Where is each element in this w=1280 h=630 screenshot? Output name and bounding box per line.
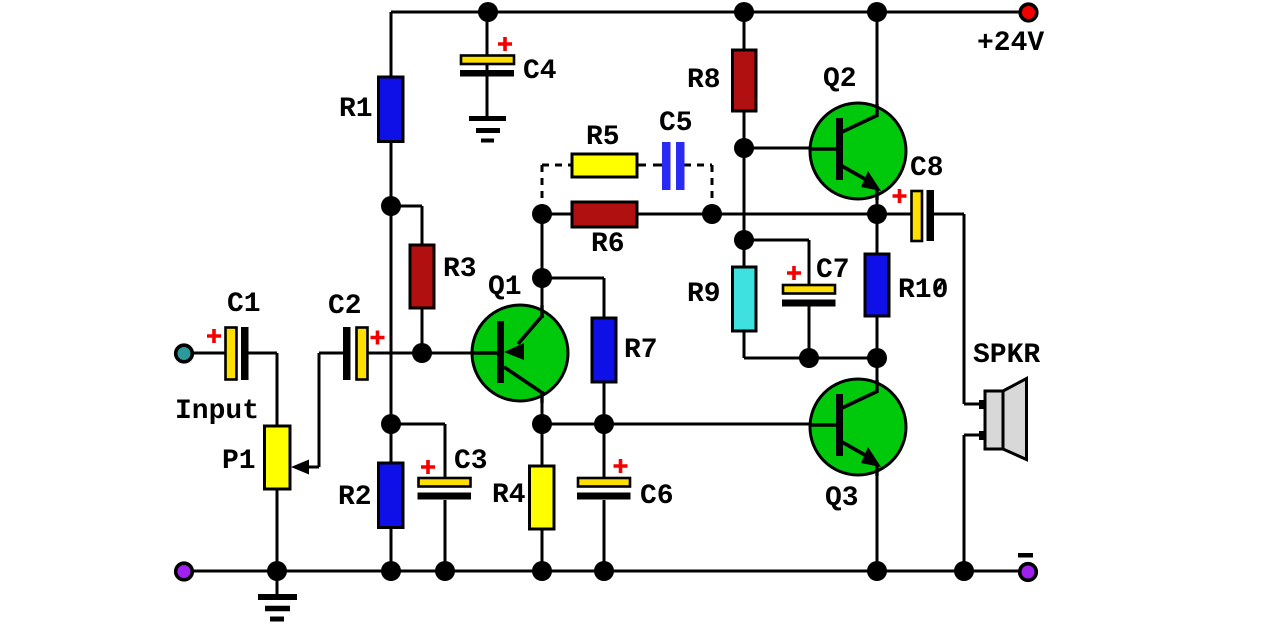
speaker SPKR <box>985 379 1027 460</box>
junction Q1 collector node <box>532 414 552 434</box>
label P1 <box>222 446 256 477</box>
label C4 <box>523 56 557 87</box>
resistor R6 <box>572 202 637 227</box>
terminal +24V <box>1020 4 1037 21</box>
label C1 <box>227 289 261 320</box>
capacitor C7 <box>782 285 836 307</box>
wire C7 branch <box>744 240 809 358</box>
svg-text:R2: R2 <box>338 482 372 513</box>
resistor R9 <box>733 267 757 331</box>
junction C5 dashed link on node A <box>702 204 722 224</box>
wire input to C1 <box>192 352 225 355</box>
label C5 <box>659 108 693 139</box>
wire speaker top lead <box>964 400 987 409</box>
junction C7 bottom on node B <box>799 348 819 368</box>
polarity + for C2 <box>371 331 385 345</box>
label Q1 <box>488 272 522 303</box>
junction R7/C6 on collector line <box>594 414 614 434</box>
junction Q3 emitter ground <box>867 561 887 581</box>
wire C1 to P1 top <box>248 353 277 427</box>
svg-text:+24V: +24V <box>977 28 1044 59</box>
label R9 <box>687 279 721 310</box>
wire dashed link R5 to C5 <box>637 164 662 167</box>
junction R8 on +24V rail <box>734 2 754 22</box>
junction C7 branch on R8 branch <box>734 230 754 250</box>
polarity + for C8 <box>893 189 907 203</box>
ground (C4) <box>469 119 506 141</box>
capacitor C4 <box>460 56 514 77</box>
resistor R10 <box>865 254 889 316</box>
capacitor C2 <box>343 327 368 380</box>
label Input <box>175 396 259 427</box>
junction Q1 emitter / R7 top <box>532 268 552 288</box>
resistor R2 <box>379 463 404 528</box>
svg-text:P1: P1 <box>222 446 256 477</box>
label R4 <box>492 480 526 511</box>
resistor R7 <box>592 318 616 382</box>
wire P1 wiper to C2 <box>298 353 343 467</box>
junction speaker ground <box>954 561 974 581</box>
wire Q3 collector <box>876 358 879 394</box>
junction R1/R3 divider node <box>381 196 401 216</box>
label R3 <box>443 254 477 285</box>
svg-text:C3: C3 <box>454 446 488 477</box>
resistor R3 <box>410 245 434 308</box>
transistor Q3 <box>810 379 906 476</box>
svg-text:C7: C7 <box>816 255 850 286</box>
polarity + for C1 <box>207 329 221 343</box>
svg-text:C6: C6 <box>640 481 674 512</box>
wire C6 bottom to ground rail <box>603 500 606 571</box>
svg-text:R4: R4 <box>492 480 526 511</box>
wire Q1 emitter up to node A <box>541 214 544 312</box>
wire dashed link left of R5 <box>542 165 572 211</box>
svg-text:R1: R1 <box>339 94 373 125</box>
wire Q1 collector down <box>541 392 544 424</box>
label Q3 <box>825 483 859 514</box>
junction R2 top / C3 branch <box>381 414 401 434</box>
junction R4 ground <box>532 561 552 581</box>
label R5 <box>586 122 620 153</box>
label R10 <box>898 275 948 306</box>
svg-text:R7: R7 <box>624 335 658 366</box>
wire Q1 collector to Q3 base <box>542 423 812 426</box>
svg-text:R9: R9 <box>687 279 721 310</box>
ground (bottom rail) <box>258 571 297 619</box>
wire R7 branch from Q1 emitter <box>542 278 604 318</box>
junction R3 bottom on Q1 base <box>412 343 432 363</box>
label R1 <box>339 94 373 125</box>
wire C8 to speaker corner <box>933 214 964 404</box>
svg-text:R5: R5 <box>586 122 620 153</box>
wire R3 bottom to base node <box>421 308 424 353</box>
svg-text:R6: R6 <box>591 229 625 260</box>
capacitor C5 <box>662 142 685 190</box>
label C3 <box>454 446 488 477</box>
wire left divider vertical (R1-R2 chain) <box>390 12 393 571</box>
svg-text:Q2: Q2 <box>823 64 857 95</box>
wire R3 top to divider node <box>391 206 422 245</box>
label R7 <box>624 335 658 366</box>
svg-text:SPKR: SPKR <box>973 340 1040 371</box>
wire C2 to Q1 base <box>367 352 473 355</box>
svg-text:R3: R3 <box>443 254 477 285</box>
capacitor C8 <box>912 190 935 241</box>
svg-text:C2: C2 <box>328 291 362 322</box>
wire C3 bottom to ground rail <box>444 500 447 571</box>
label R6 <box>591 229 625 260</box>
junction Q2 collector on +24V rail <box>867 2 887 22</box>
label C8 <box>910 153 944 184</box>
transistor Q2 <box>810 103 906 200</box>
svg-text:Q1: Q1 <box>488 272 522 303</box>
polarity + for C7 <box>787 266 801 280</box>
wire top +24V rail <box>391 11 1024 14</box>
wire P1 bottom to ground rail <box>276 489 279 571</box>
label C6 <box>640 481 674 512</box>
junction C3 ground <box>435 561 455 581</box>
label Q2 <box>823 64 857 95</box>
junction C6 ground <box>594 561 614 581</box>
wire bottom ground rail <box>188 570 1024 573</box>
terminal negative right <box>1018 553 1036 580</box>
wire C4 branch from top rail <box>486 12 489 116</box>
resistor R8 <box>733 50 757 111</box>
capacitor C1 <box>226 327 249 380</box>
wire R10 bottom to node B <box>876 316 879 358</box>
wire Q2 base from R8 node <box>744 147 840 150</box>
wire R8/R9 branch vertical <box>743 12 746 358</box>
junction R2 ground <box>381 561 401 581</box>
terminal ground left <box>176 563 193 580</box>
wire Q2 collector from top rail <box>876 12 879 119</box>
resistor R4 <box>530 466 555 529</box>
wire R4 to ground rail <box>541 424 544 571</box>
wire node B horizontal (R9/C7/R10 bottom) <box>744 357 877 360</box>
label C2 <box>328 291 362 322</box>
wire speaker bottom lead <box>964 431 987 571</box>
transistor Q1 <box>472 305 568 403</box>
svg-text:C4: C4 <box>523 56 557 87</box>
capacitor C3 <box>418 478 472 500</box>
label +24V <box>977 28 1044 59</box>
svg-text:C1: C1 <box>227 289 261 320</box>
svg-text:Q3: Q3 <box>825 483 859 514</box>
wire Q3 emitter to ground rail <box>876 466 879 571</box>
polarity + for C6 <box>614 459 628 473</box>
label R8 <box>687 65 721 96</box>
capacitor C6 <box>577 478 631 500</box>
wire R7 bottom to collector line <box>603 382 606 424</box>
polarity + for C4 <box>498 37 512 51</box>
svg-text:Input: Input <box>175 396 259 427</box>
wire dashed link right of C5 <box>684 165 712 211</box>
junction R10 bottom / Q3 collector <box>867 348 887 368</box>
wire C6 top to collector line <box>603 424 606 478</box>
junction node A at R5/R6 left <box>532 204 552 224</box>
svg-text:R8: R8 <box>687 65 721 96</box>
label C7 <box>816 255 850 286</box>
junction P1 ground <box>267 561 287 581</box>
label R2 <box>338 482 372 513</box>
wire R2 top node to C3 <box>391 424 445 478</box>
label SPKR <box>973 340 1040 371</box>
resistor R5 <box>572 154 637 177</box>
svg-text:C5: C5 <box>659 108 693 139</box>
junction C4 on +24V rail <box>478 2 498 22</box>
junction Q2 emitter / C8 / R10 <box>867 204 887 224</box>
wire node A horizontal (R6 line) <box>541 213 911 216</box>
polarity + for C3 <box>421 460 435 474</box>
junction Q2 base on R8 branch <box>734 138 754 158</box>
terminal input <box>176 345 193 362</box>
svg-text:C8: C8 <box>910 153 944 184</box>
wire Q2 emitter down to R10 <box>876 190 879 254</box>
resistor R1 <box>379 77 404 142</box>
potentiometer P1 <box>265 426 310 489</box>
svg-text:R10: R10 <box>898 275 948 306</box>
